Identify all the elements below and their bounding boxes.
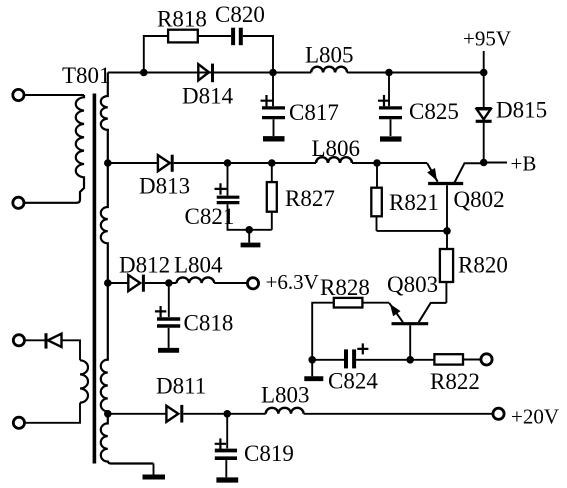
terminal +6.3V — [247, 278, 258, 289]
inductor L803 — [266, 408, 304, 414]
svg-text:+B: +B — [511, 152, 537, 176]
polarity + C818 — [155, 306, 166, 317]
inductor L804 — [177, 277, 215, 283]
wire C825 branch — [388, 73, 390, 107]
polarity + C825 — [378, 95, 390, 106]
wire D812 to L804 — [145, 282, 177, 284]
resistor R818 — [168, 30, 198, 43]
terminal primary2 top — [13, 335, 24, 346]
junction node S2/S3 tap — [104, 279, 112, 287]
wire C821 to ground rail — [228, 204, 272, 230]
svg-text:C820: C820 — [215, 2, 265, 27]
wire +B stub — [484, 162, 507, 164]
ground (C825) — [380, 136, 402, 141]
wire row2 left — [108, 162, 157, 164]
diode D813 — [158, 155, 170, 171]
ground (C819) — [216, 477, 238, 482]
wire C818 to end bar — [168, 328, 170, 348]
resistor R821 — [376, 163, 378, 188]
capacitor C817 — [262, 106, 285, 109]
wire R818 branch up — [144, 36, 168, 73]
wire C825 to end bar — [390, 119, 392, 136]
wire C817 to end bar — [273, 119, 275, 136]
diode D811 — [166, 406, 178, 422]
wire damper diode to primary winding P2 — [62, 340, 81, 360]
wire row3 left — [108, 282, 128, 284]
ground (R828/C824) — [311, 360, 313, 377]
junction node +95V — [480, 69, 488, 77]
wire C817 branch — [272, 73, 274, 107]
svg-text:C824: C824 — [328, 369, 378, 394]
svg-text:T801: T801 — [62, 63, 111, 88]
wire rail L805 to +95V node — [347, 72, 484, 74]
junction node S3/S4 tap — [104, 410, 112, 418]
junction node C825 — [385, 69, 393, 77]
svg-text:R818: R818 — [157, 7, 207, 32]
capacitor C818 — [157, 317, 180, 320]
junction node R827 — [268, 159, 276, 167]
terminal primary top-left — [13, 89, 24, 100]
wire C820 down to rail — [243, 36, 273, 73]
junction node C821 — [224, 159, 232, 167]
svg-text:D812: D812 — [119, 253, 170, 278]
inductor L806 — [316, 157, 352, 163]
svg-text:C821: C821 — [185, 204, 235, 229]
diode D814 — [198, 64, 209, 80]
wire P2 to bottom terminal — [25, 403, 80, 423]
wire row4 left — [108, 413, 166, 415]
svg-text:D813: D813 — [139, 174, 190, 199]
svg-text:C817: C817 — [289, 100, 339, 125]
wire R828 to Q803 emitter — [362, 302, 389, 304]
junction node C824 left / ground — [308, 356, 316, 364]
svg-text:R820: R820 — [458, 253, 508, 278]
junction node Q803 base — [406, 356, 414, 364]
resistor R820 — [446, 231, 448, 249]
svg-text:Q802: Q802 — [454, 187, 505, 212]
svg-text:D815: D815 — [496, 98, 547, 123]
svg-text:D811: D811 — [156, 374, 206, 399]
wire +95V rail left (row1) — [108, 72, 311, 74]
svg-text:+20V: +20V — [511, 405, 559, 429]
wire L803 to +20V terminal — [304, 413, 493, 415]
junction node ground C821/R827 — [245, 226, 253, 234]
wire C819 branch — [226, 414, 228, 449]
svg-text:R821: R821 — [389, 190, 439, 215]
polarity + C819 — [215, 438, 226, 449]
secondary winding S4 — [101, 414, 154, 464]
inductor L805 — [311, 67, 347, 73]
wire R828 left leg — [312, 303, 334, 360]
secondary winding S2 — [101, 163, 108, 283]
svg-text:L805: L805 — [305, 43, 354, 68]
secondary winding S1 — [101, 73, 108, 164]
svg-text:C819: C819 — [244, 441, 294, 466]
polarity + C824 — [357, 343, 368, 354]
resistor R827 — [271, 163, 273, 182]
svg-text:D814: D814 — [182, 84, 234, 109]
svg-text:+95V: +95V — [463, 27, 511, 51]
primary winding P1 — [25, 95, 84, 203]
svg-text:R827: R827 — [285, 186, 335, 211]
diode D815 — [476, 107, 492, 110]
svg-text:L804: L804 — [174, 253, 223, 278]
secondary winding S3 — [101, 283, 108, 414]
polarity + C821 — [215, 183, 227, 194]
junction node R821 — [373, 159, 381, 167]
wire C824 to R822 — [356, 359, 434, 361]
polarity + C817 — [261, 95, 273, 106]
damper diode (primary side) — [45, 333, 48, 348]
svg-text:R828: R828 — [320, 275, 370, 300]
capacitor C821 — [217, 196, 240, 199]
junction node R818 branch — [140, 69, 148, 77]
ground (C817) — [263, 136, 285, 141]
terminal +20V — [493, 408, 504, 419]
resistor R828 — [334, 298, 363, 308]
junction node C818 — [165, 279, 173, 287]
wire C819 to end bar — [225, 460, 227, 477]
svg-text:R822: R822 — [430, 369, 480, 394]
svg-text:L806: L806 — [312, 136, 361, 161]
wire row2 D813 to L806 — [174, 162, 316, 164]
wire C818 branch — [168, 283, 170, 317]
junction node S1/S2 tap — [104, 159, 112, 167]
primary winding P2 — [80, 360, 88, 402]
svg-text:+6.3V: +6.3V — [266, 270, 319, 294]
wire L806 to Q802 emitter — [352, 162, 427, 164]
junction node C819 — [223, 410, 231, 418]
wire L804 to +6.3V terminal — [214, 282, 247, 284]
wire terminal to primary winding P1 — [25, 94, 84, 96]
capacitor C820 — [231, 28, 235, 46]
wire +95V stub — [483, 51, 485, 73]
ground (C818) — [158, 348, 179, 353]
transistor Q802 — [428, 182, 463, 185]
terminal primary bottom-left — [13, 197, 24, 208]
resistor R822 — [434, 354, 463, 364]
wire D815 cathode to +B node — [483, 123, 485, 163]
junction node Q802 base / R820 — [443, 227, 451, 235]
wire R818 to C820 — [198, 35, 231, 37]
wire C821 branch — [227, 163, 229, 196]
ground (C821/R827) — [248, 230, 250, 243]
capacitor C825 — [379, 106, 402, 109]
svg-text:Q803: Q803 — [387, 272, 438, 297]
svg-text:L803: L803 — [261, 383, 310, 408]
junction node +B — [480, 159, 488, 167]
terminal primary2 bottom — [13, 417, 24, 428]
transformer T801 core — [93, 94, 97, 464]
transistor Q803 — [392, 322, 429, 325]
wire R821 to Q802 base node — [377, 230, 448, 232]
wire terminal to damper diode — [25, 339, 44, 341]
capacitor C824 — [344, 349, 348, 368]
ground (transformer bottom) — [143, 475, 166, 480]
svg-text:C818: C818 — [184, 311, 234, 336]
wire D811 to L803 — [183, 413, 265, 415]
terminal R822 output — [481, 354, 492, 365]
diode D812 — [128, 275, 140, 291]
wire R822 to terminal — [463, 359, 480, 361]
wire secondary bottom to ground — [153, 464, 155, 475]
capacitor C819 — [215, 449, 237, 453]
junction node C817 — [269, 69, 277, 77]
svg-text:C825: C825 — [409, 99, 459, 124]
wire C824 left — [312, 359, 344, 361]
wire D815 anode — [483, 73, 485, 108]
